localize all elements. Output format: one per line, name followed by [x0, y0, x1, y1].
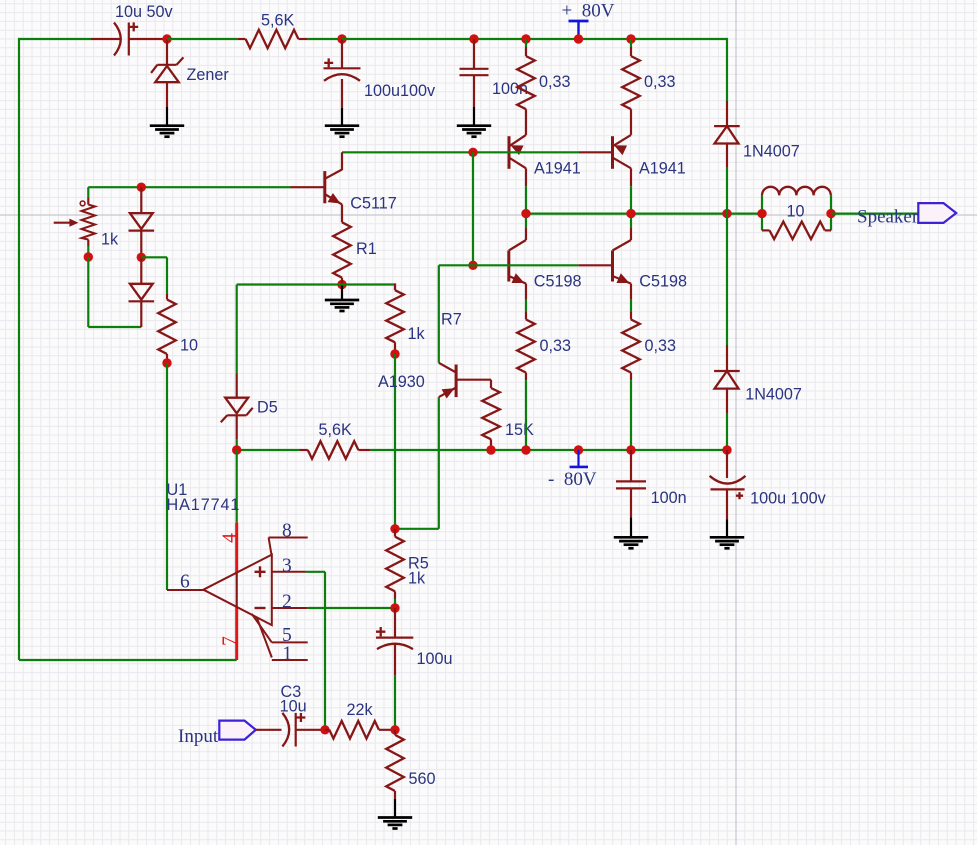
wire pot bottom loop: [87, 257, 89, 327]
svg-text:0,33: 0,33: [540, 337, 572, 355]
svg-text:C5198: C5198: [534, 272, 582, 290]
wire A1930 emitter down: [438, 397, 440, 529]
transistor C5198 left: [525, 214, 527, 228]
node dot output C5198L: [521, 209, 530, 218]
wire left rail top: [19, 38, 91, 40]
wire output rail: [526, 213, 762, 215]
resistor 0,33 upper-right: [630, 39, 632, 47]
svg-text:D5: D5: [257, 399, 278, 417]
svg-text:100n: 100n: [651, 489, 687, 507]
op-amp U1 power line: [235, 523, 238, 573]
diode D2 chain: [140, 257, 142, 284]
svg-text:1N4007: 1N4007: [745, 386, 802, 404]
resistor 22k: [325, 729, 329, 731]
resistor 15K: [490, 380, 492, 388]
diode 1N4007 top: [726, 101, 728, 126]
node dot C5198 base rail: [468, 261, 477, 270]
node dot top-left: [162, 34, 171, 43]
ground for Zener: [150, 126, 184, 137]
svg-text:C5117: C5117: [350, 195, 397, 213]
svg-text:R1: R1: [356, 240, 377, 258]
node dot diode chain top: [137, 183, 146, 192]
svg-text:7: 7: [220, 636, 241, 646]
wire 5,6K to rail node: [307, 38, 342, 40]
svg-text:100u 100v: 100u 100v: [750, 490, 827, 508]
node dot 15K bottom: [486, 445, 495, 454]
resistor 1k mid: [393, 285, 395, 291]
transistor A1930: [455, 365, 458, 398]
node dot 22k-560: [390, 725, 399, 734]
resistor R1: [333, 222, 351, 277]
wire diode node to resistor 10: [141, 256, 167, 258]
node dot D5 bottom: [232, 445, 241, 454]
op-amp plus sign: [255, 566, 266, 577]
ground for 100u100v: [325, 126, 359, 137]
resistor 5,6K mid: [300, 449, 308, 451]
svg-text:560: 560: [409, 770, 436, 788]
svg-text:0,33: 0,33: [645, 337, 677, 355]
node dot C3 out: [320, 725, 329, 734]
node dot 0,33L bottom: [521, 445, 530, 454]
svg-text:3: 3: [282, 555, 292, 576]
svg-text:8: 8: [282, 521, 292, 542]
ground 560: [378, 818, 412, 829]
ground at R1: [341, 285, 343, 301]
svg-text:0,33: 0,33: [644, 73, 676, 91]
zener diode Zener: [166, 39, 168, 65]
node dot resistor 10 bottom: [162, 358, 171, 367]
wire C5198 base rail: [439, 264, 579, 266]
op-amp pin 3: [272, 571, 306, 573]
node dot pot bottom: [84, 252, 93, 261]
op-amp pin 6: [167, 589, 203, 591]
resistor R5: [394, 529, 396, 537]
svg-text:1: 1: [282, 644, 292, 665]
capacitor C3: [256, 729, 282, 731]
node dot 0,33R bottom: [626, 445, 635, 454]
wire top rail down right: [726, 38, 728, 101]
zener diode D5: [236, 285, 238, 374]
svg-text:A1941: A1941: [534, 160, 581, 178]
wire C5117 base: [88, 186, 290, 188]
svg-text:10: 10: [180, 337, 198, 355]
svg-text:+ 80V: + 80V: [562, 1, 615, 22]
capacitor 100u100v: [341, 39, 343, 68]
ground 100u 100v: [710, 537, 744, 548]
diode D1 chain: [140, 187, 142, 213]
node dot R5 top: [390, 524, 399, 533]
node dot output diode column: [722, 209, 731, 218]
resistor 0,33 lower-left: [525, 300, 527, 312]
wire mid row: [237, 283, 342, 285]
wire R7: [438, 265, 440, 363]
node dot 1k bottom: [390, 349, 399, 358]
resistor 560: [394, 730, 396, 735]
svg-text:1k: 1k: [408, 325, 426, 343]
svg-text:22k: 22k: [347, 701, 374, 719]
wire -80V rail: [237, 449, 300, 451]
resistor 5,6K top: [237, 38, 245, 40]
transistor C5198 right: [630, 214, 632, 228]
node dot output C5198R: [626, 209, 635, 218]
svg-text:2: 2: [282, 592, 292, 613]
svg-text:100u: 100u: [417, 650, 453, 668]
ground 100n bottom: [614, 537, 648, 548]
capacitor 100n bottom: [630, 450, 632, 481]
node dot base rail: [468, 148, 477, 157]
node dot inductor left: [757, 209, 766, 218]
terminal Input: [219, 721, 256, 740]
svg-text:Zener: Zener: [187, 66, 230, 84]
wire top rail main: [342, 38, 727, 40]
op-amp pin 1: [257, 618, 272, 658]
capacitor C 10u 50v: [91, 38, 122, 40]
node dot 100n top: [469, 34, 478, 43]
diode 1N4007 bottom: [726, 214, 728, 345]
wire to op-amp pin6: [166, 363, 168, 590]
op-amp minus sign: [255, 607, 266, 609]
svg-text:Speaker: Speaker: [857, 207, 919, 228]
node dot R5 bottom: [390, 603, 399, 612]
svg-text:1N4007: 1N4007: [743, 142, 800, 160]
op-amp pin 2: [272, 607, 308, 609]
wire driver vertical: [472, 152, 474, 265]
svg-text:C5198: C5198: [639, 272, 687, 290]
resistor 0,33 upper-left: [525, 39, 527, 47]
capacitor 100u: [394, 608, 396, 638]
node dot 0,33 right: [626, 34, 635, 43]
svg-text:HA17741: HA17741: [167, 496, 241, 514]
svg-text:1k: 1k: [101, 231, 119, 249]
svg-text:5,6K: 5,6K: [319, 421, 353, 439]
svg-text:A1941: A1941: [639, 160, 686, 178]
svg-text:A1930: A1930: [378, 373, 425, 391]
transistor C5117: [291, 186, 325, 188]
node dot between diodes: [137, 253, 146, 262]
svg-text:R7: R7: [441, 311, 462, 329]
wire left rail vertical: [18, 38, 20, 660]
op-amp pin 5: [252, 614, 272, 643]
svg-text:5,6K: 5,6K: [261, 12, 295, 30]
node dot rail right end: [722, 445, 731, 454]
node dot -80V tap: [574, 445, 583, 454]
wire left rail bottom to op-amp pin7: [19, 659, 237, 661]
svg-text:4: 4: [220, 533, 241, 543]
svg-text:15K: 15K: [505, 421, 534, 439]
svg-text:100u100v: 100u100v: [364, 82, 436, 100]
svg-text:- 80V: - 80V: [548, 469, 597, 490]
svg-text:10: 10: [787, 203, 805, 221]
node dot +80V tap: [574, 34, 583, 43]
terminal Speaker: [918, 203, 956, 223]
wire top rail to 5,6K: [167, 38, 237, 40]
node dot inductor right: [826, 209, 835, 218]
capacitor 100u 100v bottom: [726, 450, 728, 478]
wire pin3 to input node: [306, 571, 326, 573]
resistor 0,33 lower-right: [630, 300, 632, 312]
wire A1941 base rail: [342, 151, 579, 153]
potentiometer 1k: [87, 187, 89, 198]
svg-text:10u: 10u: [280, 698, 307, 716]
inductor 10 with resistor: [761, 195, 763, 230]
wire pin2 to R5: [308, 607, 395, 609]
wire 1k to R5: [394, 354, 396, 529]
svg-text:1k: 1k: [408, 570, 426, 588]
transistor A1941 left: [508, 136, 511, 169]
power symbol -80V: [577, 450, 579, 467]
svg-text:0,33: 0,33: [539, 73, 571, 91]
node dot R1 bottom: [337, 280, 346, 289]
power symbol +80V: [577, 21, 579, 39]
svg-text:10u 50v: 10u 50v: [115, 3, 174, 21]
transistor A1941 right: [611, 136, 614, 169]
wire pin4 feed: [236, 450, 238, 523]
wire to speaker: [831, 213, 918, 215]
op-amp U1 triangle: [203, 555, 271, 626]
svg-text:Input: Input: [178, 726, 219, 747]
resistor 10: [166, 294, 168, 300]
node dot 0,33 left: [521, 34, 530, 43]
node dot at 100u100v: [337, 34, 346, 43]
ground for 100n top: [457, 126, 491, 137]
capacitor 100n top: [473, 39, 475, 69]
svg-text:6: 6: [180, 572, 190, 593]
op-amp pin 8: [269, 537, 308, 539]
